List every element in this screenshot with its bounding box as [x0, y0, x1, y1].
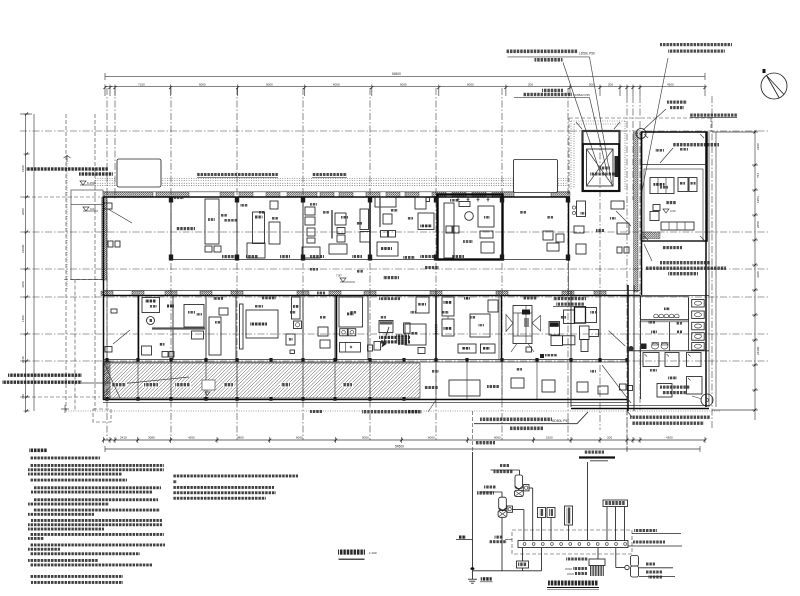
- corridor door diagonal right: [609, 331, 626, 347]
- notes lines column 2: [173, 475, 298, 478]
- bottom band room2 boxes: [184, 305, 204, 328]
- elevator door strip: [615, 156, 619, 177]
- horizontal grid lines: [20, 130, 770, 132]
- room1 boxes: [108, 241, 113, 247]
- hatch white box: [202, 380, 215, 390]
- svg-text:4200: 4200: [188, 436, 195, 440]
- top dim extension ticks: [104, 91, 106, 97]
- busbar dashed enclosure: [512, 530, 632, 554]
- room 503-568 boxes: [543, 231, 553, 240]
- svg-text:2640: 2640: [21, 356, 25, 363]
- annotation manhole text: [667, 101, 687, 104]
- right block annotation below: [660, 261, 710, 264]
- corner braces right block: [644, 134, 648, 138]
- svg-text:7150: 7150: [138, 82, 145, 86]
- svg-text:5100: 5100: [546, 436, 553, 440]
- bottom annotation leader diagonal: [428, 400, 436, 412]
- svg-text:6000: 6000: [199, 82, 206, 86]
- svg-text:764: 764: [756, 173, 760, 178]
- hatch internal partitions: [137, 363, 139, 398]
- wall top annotation 2: [312, 173, 347, 176]
- bottom annotation cable: [480, 418, 552, 422]
- horizontal grid partial: [20, 196, 100, 198]
- bottom band room3: [209, 317, 221, 355]
- room4 boxes: [305, 207, 315, 215]
- partition x237: [236, 197, 238, 260]
- annotation top-right text: [660, 43, 732, 46]
- annotation left-bottom leader: [82, 377, 189, 383]
- svg-text:200: 200: [528, 82, 533, 86]
- arrester A counter: [523, 485, 529, 491]
- left wall hatch upper: [102, 197, 107, 280]
- svg-text:2400: 2400: [756, 143, 760, 150]
- bottom band room5: [318, 327, 328, 336]
- svg-text:FC6502 P25: FC6502 P25: [573, 93, 590, 97]
- air handling unit: [513, 306, 532, 344]
- hatch labels: [111, 383, 127, 388]
- elevator canopy corner ties: [576, 122, 582, 129]
- label lightning lead: [634, 529, 657, 532]
- svg-text:24300: 24300: [756, 346, 760, 355]
- bottom band room4: [240, 304, 244, 349]
- outdoor stub bottom-left: [93, 409, 111, 422]
- schematic main down-conductor wire: [472, 452, 474, 571]
- svg-text:6.150: 6.150: [87, 181, 95, 185]
- svg-text:1:100: 1:100: [369, 551, 377, 555]
- site dotted line bottom: [66, 410, 720, 412]
- right section wall y295: [627, 295, 709, 297]
- annotation left-bottom text: [8, 374, 82, 377]
- hatch level mark: [205, 392, 210, 396]
- svg-text:500: 500: [589, 82, 594, 86]
- ahu dark blobs: [522, 310, 530, 315]
- room3 transformer: [253, 212, 265, 244]
- annotation right-bottom outside: [630, 416, 710, 419]
- right block labels: [666, 201, 676, 204]
- right section stalls: [688, 298, 690, 350]
- svg-text:200: 200: [608, 82, 613, 86]
- right block bottom label: [662, 246, 682, 249]
- vertical grid line col B: [114, 88, 116, 200]
- svg-text:6000: 6000: [400, 82, 407, 86]
- room 568-640 boxes: [577, 201, 586, 217]
- elevator car: [587, 149, 614, 186]
- elevator shaft outer wall: [583, 131, 620, 191]
- room7 arrow: [383, 327, 390, 346]
- corridor cable label: [425, 266, 439, 269]
- top dimension line overall 54500: [105, 75, 705, 77]
- elevator dashed canopy: [569, 117, 711, 119]
- room 568-640 door: [616, 211, 631, 226]
- shielded room top ticks: [457, 198, 459, 202]
- vertical grid line right cluster: [599, 140, 601, 430]
- site cross mark: [61, 408, 69, 410]
- annotation stair text: [542, 89, 563, 92]
- cable trench label: [176, 227, 195, 230]
- room interior labels upper band: [240, 204, 248, 207]
- canopy rect A: [117, 159, 161, 187]
- right block box row A0-A8: [661, 222, 694, 230]
- annotation fresh air text: [673, 143, 719, 146]
- schematic title: [548, 581, 598, 586]
- ahu fan cones: [506, 315, 513, 332]
- svg-text:6000: 6000: [333, 82, 340, 86]
- svg-text:790: 790: [21, 394, 25, 399]
- svg-text:2000: 2000: [21, 208, 25, 215]
- right section mid wall: [641, 319, 689, 321]
- room5 boxes: [360, 209, 369, 230]
- right section wall y351: [627, 350, 709, 352]
- room 436-502 boxes: [442, 297, 454, 316]
- bottom rooms bottom wall: [103, 359, 627, 361]
- left wall corner hatch: [103, 361, 110, 399]
- svg-text:LD50L P50: LD50L P50: [579, 52, 595, 56]
- label ground trunk: [633, 541, 665, 544]
- fan room wall heavy: [501, 296, 503, 360]
- svg-text:54500: 54500: [392, 72, 401, 76]
- bottom wall main: [103, 399, 627, 401]
- drain circle corner: [701, 394, 713, 406]
- junction dot: [470, 567, 474, 570]
- bottom band room6: [339, 297, 363, 327]
- annotation top-center underline: [508, 56, 590, 58]
- expansion joint wall: [627, 285, 629, 411]
- manhole circle: [636, 129, 646, 139]
- bottom row rooms boxes: [449, 380, 480, 396]
- svg-text:24000: 24000: [21, 244, 25, 253]
- wire horizontal bottom: [473, 570, 542, 572]
- svg-text:4300: 4300: [667, 82, 674, 86]
- shield down lead label: [475, 441, 495, 444]
- right block inner room: [644, 169, 703, 241]
- wall circle mark: [629, 346, 634, 351]
- mid left boxes x400: [416, 297, 429, 313]
- outdoor cable trench rect: [71, 190, 103, 280]
- partition x568 main wall: [568, 197, 570, 261]
- annotation top-center text: [506, 50, 578, 54]
- bottom dim line 1: [103, 439, 705, 441]
- svg-text:7.87: 7.87: [336, 274, 342, 278]
- svg-text:6000: 6000: [494, 436, 501, 440]
- busbar equipotential bar: [518, 541, 628, 548]
- notes title: [29, 449, 47, 453]
- top dimension line segments: [105, 86, 705, 88]
- room3 label: [222, 255, 238, 258]
- ground symbol main: [472, 571, 474, 579]
- room interior labels bottom band: [150, 305, 157, 308]
- fan room label: [523, 297, 537, 300]
- shielded room border: [438, 195, 503, 260]
- svg-text:KD50L P50: KD50L P50: [552, 419, 569, 423]
- surge arrester B: [499, 497, 507, 510]
- consoles: [549, 322, 560, 336]
- cabinet row right: [564, 310, 575, 324]
- level mark 0.00 left: [83, 207, 89, 211]
- earth electrode comb: [597, 548, 599, 559]
- telephone box: [538, 508, 546, 518]
- svg-text:4180: 4180: [756, 271, 760, 278]
- partition box x370: [368, 345, 373, 351]
- room2 transformer: [205, 199, 219, 244]
- wall 138 heavy: [138, 295, 140, 360]
- right block annotation leader: [644, 244, 652, 261]
- right dimension line: [754, 130, 756, 420]
- room 568-600 wall: [599, 294, 601, 360]
- bottom band room1 door: [113, 330, 130, 344]
- test terminal label: [495, 536, 503, 539]
- transformer right wire: [615, 548, 617, 568]
- roof lightning belt: [584, 451, 604, 454]
- bottom dim line 2: [105, 448, 700, 450]
- left wall: [103, 197, 105, 400]
- right block partition y164: [642, 164, 708, 166]
- elevator label: [600, 167, 610, 170]
- right section left wall: [640, 296, 642, 399]
- wall 336 heavy: [336, 295, 338, 361]
- svg-text:4180: 4180: [21, 281, 25, 288]
- middle wall y259: [171, 259, 568, 261]
- svg-text:2410: 2410: [120, 436, 127, 440]
- left wall column block: [104, 203, 112, 209]
- surge arrester A: [515, 475, 523, 489]
- shielded room equipment: [444, 203, 454, 258]
- vertical grid lines: [106, 88, 108, 440]
- svg-text:200: 200: [607, 436, 612, 440]
- ahu small box: [526, 347, 532, 352]
- svg-text:0.00: 0.00: [90, 207, 96, 211]
- transformer right: [631, 556, 639, 567]
- transformer labels: [646, 563, 655, 566]
- partition x171: [170, 197, 172, 260]
- bottom band partitions: [137, 296, 139, 360]
- canopy rect B: [514, 160, 558, 193]
- room7 dark annotation: [379, 336, 410, 339]
- outdoor dashes: [94, 114, 96, 411]
- svg-text:6000: 6000: [362, 436, 369, 440]
- column blocks bottom rooms wall: [105, 358, 108, 362]
- svg-text:0.00: 0.00: [670, 209, 676, 213]
- bottom band top wall: [103, 290, 640, 292]
- bottom row partitions: [435, 362, 437, 399]
- right section room circles row: [641, 297, 689, 320]
- hatch end diagonal: [104, 363, 120, 398]
- hatched corridor: [104, 363, 420, 398]
- distribution box: [603, 500, 628, 507]
- right block cabinet row: [650, 178, 674, 194]
- wall x640: [641, 132, 643, 295]
- drawing title: [338, 550, 365, 555]
- svg-text:4800: 4800: [237, 436, 244, 440]
- arrester B counter: [507, 506, 513, 512]
- bottom wall right section: [571, 405, 709, 407]
- corridor label: [383, 276, 399, 279]
- svg-text:6000: 6000: [428, 436, 435, 440]
- svg-text:4300: 4300: [666, 436, 673, 440]
- bottom band room2 gray partition: [152, 327, 205, 329]
- right section room labels: [651, 331, 657, 334]
- hatched wall band x634: [634, 132, 639, 292]
- annotation left text: [26, 167, 108, 170]
- elevator shaft heavy box: [583, 144, 619, 191]
- partition x370: [369, 197, 371, 260]
- room labels row y255: [246, 255, 258, 258]
- busbar terminals: [523, 543, 526, 546]
- right section room partition: [669, 322, 671, 351]
- left dimension line: [25, 114, 27, 411]
- top wall hatched band: [104, 192, 153, 197]
- room2 pair boxes: [205, 246, 212, 252]
- north arrow: [761, 73, 787, 99]
- annotation top-center leaders: [590, 57, 613, 186]
- corridor level mark: [340, 278, 346, 282]
- left dim top tick: [20, 113, 32, 115]
- right block corner hatch: [642, 232, 660, 239]
- right block small boxes: [653, 205, 660, 211]
- room1 door diagonal: [108, 209, 132, 223]
- corridor stub boxes: [620, 384, 627, 390]
- network box: [547, 508, 555, 518]
- notes lines column 1: [30, 457, 100, 460]
- catv box: [565, 506, 573, 525]
- svg-text:6000: 6000: [296, 436, 303, 440]
- right dim connectors: [712, 131, 755, 133]
- mid right annotation: [553, 297, 586, 300]
- left secondary vertical: [65, 114, 67, 411]
- bottom band wall labels: [213, 297, 223, 300]
- outdoor trench top symbol: [66, 155, 68, 162]
- right block outer wall: [642, 132, 708, 241]
- bottom dim labels on dotted line: [362, 410, 422, 414]
- annotation pit level text: [690, 114, 737, 117]
- wall top annotation 1: [197, 173, 278, 176]
- svg-text:6000: 6000: [266, 82, 273, 86]
- svg-text:1400: 1400: [21, 315, 25, 322]
- duct riser: [580, 326, 590, 340]
- top wall line: [103, 196, 570, 198]
- MEB box: [517, 561, 529, 568]
- column blocks bottom wall: [105, 397, 108, 401]
- room 568-640 label: [596, 229, 604, 232]
- dark box corridor left: [540, 354, 544, 358]
- room4 label: [280, 255, 290, 258]
- svg-text:1954: 1954: [756, 196, 760, 203]
- level mark 6.150: [80, 181, 86, 185]
- annotation top-right leader: [641, 58, 668, 196]
- right outer wall full: [705, 132, 707, 407]
- svg-text:1950: 1950: [21, 165, 25, 172]
- drain leader text: [660, 386, 690, 389]
- column blocks at partition ends upper band: [169, 255, 173, 261]
- corridor extra labels: [310, 268, 318, 271]
- bottom band room2 battery box: [142, 298, 160, 313]
- right block level mark: [663, 209, 669, 213]
- right section bottom boxes: [657, 384, 672, 398]
- annotation stair leader: [590, 98, 608, 173]
- svg-text:3080: 3080: [148, 436, 155, 440]
- toilet fixtures: [652, 343, 659, 349]
- right section sinks: [643, 353, 659, 367]
- cable trench dotted lines: [95, 178, 568, 180]
- svg-text:2650: 2650: [756, 221, 760, 228]
- bottom band room7: [379, 321, 393, 333]
- resistance label wire: [456, 539, 473, 541]
- wall 436 heavy: [435, 296, 437, 360]
- partition x303: [302, 197, 304, 260]
- room3 boxes: [270, 201, 278, 209]
- svg-text:6000: 6000: [467, 82, 474, 86]
- right wall outer line: [715, 132, 717, 407]
- svg-text:54500: 54500: [395, 445, 404, 449]
